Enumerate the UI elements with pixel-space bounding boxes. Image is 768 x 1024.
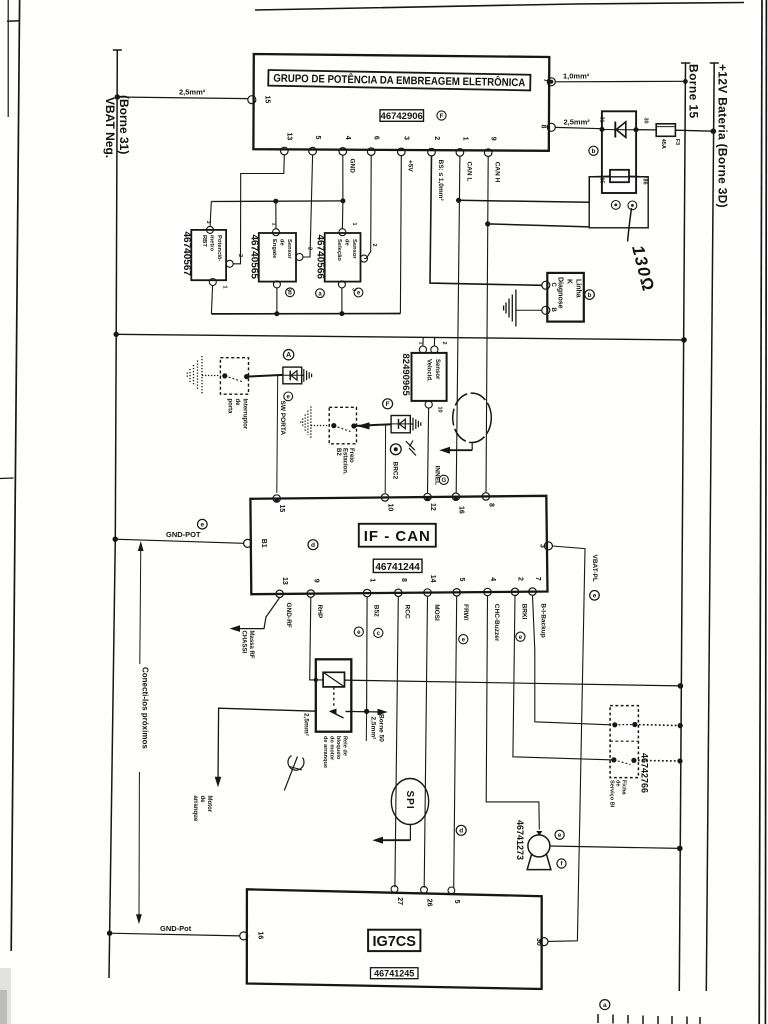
svg-text:GND-POT: GND-POT — [166, 530, 201, 539]
brake switch blade dashed — [334, 426, 351, 432]
buzzer base trapezoid — [527, 855, 551, 870]
wire coil pin86 via right edge to CAN H junction — [629, 175, 648, 178]
arrowhead on wire pointing left — [357, 422, 370, 429]
circled letter f near buzzer — [557, 859, 566, 868]
IG7CS right pin 30 — [540, 938, 548, 946]
arrowhead chassis left — [230, 625, 240, 632]
wire coil out to Borne15 long horizontal — [345, 680, 681, 686]
TOP_BOX_BOTTOM_PINS — [281, 147, 493, 156]
bottom tick marks — [598, 1014, 700, 1024]
sensor velocidade bottom pin 10 — [425, 401, 432, 408]
MAIN_VERTICALS — [109, 50, 719, 991]
SPI arrow left — [376, 839, 410, 841]
junction dot at VBAT — [113, 537, 118, 542]
svg-text:K: K — [566, 279, 573, 284]
svg-text:6: 6 — [373, 136, 380, 140]
svg-text:Sensor: Sensor — [351, 239, 357, 259]
sensor velocidade 82490965 box — [412, 353, 447, 401]
sensor velocidade top pin 1 — [419, 346, 426, 353]
svg-text:MOSI: MOSI — [433, 604, 440, 621]
switch blade dashed — [225, 376, 244, 382]
svg-text:b: b — [592, 148, 596, 155]
wire VBAT to pin15 2,5mm2 — [117, 97, 248, 99]
relay K2 coil diagonal — [323, 672, 344, 687]
wire RHP pin9 down to relay coil — [310, 598, 323, 680]
pin 15 circle left side — [248, 96, 256, 104]
svg-text:BS: ≤ 1,0mm²: BS: ≤ 1,0mm² — [437, 160, 444, 202]
svg-text:2: 2 — [433, 136, 440, 140]
wire VBAT-PL pin3 right and down to IG7CS pin30 — [548, 546, 585, 941]
sensor velocidade top pin 2 — [431, 346, 438, 353]
circled letter e below A — [284, 392, 293, 401]
svg-text:a: a — [603, 1002, 607, 1009]
wire relay output to Borne 50 (right, arrow) — [351, 711, 384, 714]
wire relay to starter motor (left, arrow down) — [218, 708, 316, 783]
lower bus rise to sensor engate bottom pin — [276, 288, 278, 314]
svg-text:C: C — [550, 283, 556, 288]
+12V top terminal tick — [710, 62, 719, 64]
svg-text:VBAT-PL: VBAT-PL — [591, 555, 598, 582]
svg-text:46741244: 46741244 — [375, 562, 420, 573]
relay K1 diode box — [602, 111, 636, 193]
junction dot at VBAT — [114, 332, 119, 337]
annotation double arrow line upper part — [140, 544, 141, 664]
IF-CAN left pin B1 — [244, 539, 252, 547]
svg-text:SW PORTA: SW PORTA — [279, 401, 286, 436]
bus drop to sensor selecao top pin — [341, 201, 344, 229]
sensor engate 46740565 box — [259, 233, 296, 282]
svg-text:e: e — [200, 522, 204, 529]
part number box 46741245 — [371, 968, 419, 979]
svg-text:2: 2 — [307, 247, 313, 250]
SPI stub down — [409, 825, 411, 841]
diode D1 triangle — [616, 122, 626, 138]
circled letter e near FRW — [459, 635, 468, 644]
bullseye mark — [390, 444, 401, 455]
junction dot B52 at relay output — [364, 709, 369, 714]
arrowhead Borne 50 — [378, 709, 388, 716]
svg-text:1: 1 — [222, 286, 228, 289]
sensor engate right pin — [296, 254, 303, 261]
relay K2 body box — [316, 659, 352, 731]
svg-text:G: G — [441, 478, 446, 484]
junction dot CAN H / relay86 wire — [485, 221, 490, 226]
svg-text:15: 15 — [264, 96, 271, 104]
svg-text:Conecti-los próximos: Conecti-los próximos — [141, 667, 150, 749]
relay K1 lower outline box — [589, 177, 648, 228]
svg-text:BRKI: BRKI — [520, 604, 527, 620]
wire pin9 CAN H down to IF-CAN pin8 — [486, 156, 488, 492]
dotted chassis ground left — [301, 406, 329, 439]
svg-text:BRC2: BRC2 — [391, 462, 398, 480]
circled letter d inside IF-CAN — [308, 540, 318, 550]
IG7CS top pin circles — [391, 886, 398, 893]
buzzer top terminal triangle — [536, 831, 542, 836]
svg-text:30: 30 — [535, 938, 542, 946]
svg-text:5: 5 — [314, 136, 321, 140]
junction dot at Borne15 — [678, 683, 684, 689]
right border outer line — [765, 0, 766, 1024]
ground symbol right of D2 — [302, 369, 312, 382]
diode D3 bar — [398, 419, 400, 429]
arrowhead down to starter motor — [215, 777, 222, 788]
relay K2 coil rect — [323, 672, 344, 687]
VBAT top terminal tick — [113, 49, 122, 51]
pin 5 circle — [309, 147, 317, 155]
wire B-I-Backup pin7 to service box top — [533, 596, 611, 725]
circled letter A — [283, 350, 293, 360]
svg-text:82490965: 82490965 — [400, 354, 411, 397]
wire BRKI pin2 to service box — [513, 596, 614, 760]
diode D1 cathode bar — [614, 122, 616, 138]
sensor selecao top pin — [339, 229, 346, 236]
svg-text:4: 4 — [344, 136, 351, 140]
lower bus rise to sensor selecao bottom pin — [341, 288, 343, 314]
wire MOSI pin14 down to IG7CS pin26 — [424, 597, 427, 888]
svg-text:b: b — [588, 292, 592, 299]
wire BRC2 branch down to IF-CAN pin10 — [384, 425, 386, 493]
svg-text:GND-Pot: GND-Pot — [160, 924, 192, 933]
brake switch contact dot right — [351, 423, 356, 428]
gray smudge bottom-left corner — [0, 968, 11, 1024]
thick wire doorswitch to diode D2 — [247, 375, 283, 377]
svg-text:RHP: RHP — [316, 605, 323, 619]
circled letter b right of box — [585, 290, 595, 300]
wire pin6 to sensor selecao right pin — [364, 155, 371, 258]
internal dashed divider — [610, 740, 638, 742]
svg-text:46742766: 46742766 — [640, 753, 650, 793]
diode D2 triangle — [291, 371, 297, 380]
svg-text:14: 14 — [429, 575, 436, 583]
wire B52 stub below relay output — [365, 711, 367, 741]
junction dot diode left pin 31 — [600, 127, 605, 132]
pin 1 circle — [456, 149, 464, 157]
stub from ellipse — [471, 443, 473, 451]
arrowhead down — [136, 914, 142, 924]
junction dot VBAT/pin15 wire — [115, 94, 120, 99]
circled letter d in relay — [611, 201, 620, 210]
circled letter a bottom right — [600, 1000, 610, 1010]
wire pin2 BS to Linha K pin C — [430, 156, 542, 285]
ground symbol right of D3 — [410, 418, 421, 431]
svg-text:arranque: arranque — [192, 796, 198, 822]
svg-text:de: de — [344, 239, 350, 247]
svg-text:+12V Bateria (Borne 3D): +12V Bateria (Borne 3D) — [716, 64, 730, 208]
junction dot at VBAT — [107, 931, 112, 936]
buzzer right wire to Borne15 — [550, 846, 680, 848]
wire GND-RF pin13 to chassis arrow — [232, 598, 279, 629]
svg-text:RCC: RCC — [404, 605, 411, 619]
svg-text:Borne 50: Borne 50 — [378, 714, 385, 742]
svg-text:2,5mm²: 2,5mm² — [564, 118, 591, 127]
brake switch contact dot left — [331, 423, 336, 428]
dotted wire to Borne15 bottom — [634, 759, 680, 762]
svg-text:Seleção: Seleção — [336, 239, 342, 261]
svg-text:8: 8 — [540, 125, 547, 129]
wire pin3 +5V down to lower bus — [399, 156, 402, 314]
left border tick — [7, 20, 20, 23]
svg-text:B-I-Backup: B-I-Backup — [540, 603, 547, 637]
IG7CS top pin labels — [396, 897, 460, 906]
relay switch blade — [330, 711, 343, 718]
IG7CS left pin 16 — [240, 932, 248, 940]
svg-text:4: 4 — [489, 577, 496, 581]
sensor selecao 46740566 box — [325, 233, 361, 282]
junction dot pin7 wire at Borne15 — [683, 79, 688, 84]
svg-text:46742906: 46742906 — [381, 111, 423, 122]
svg-text:1: 1 — [271, 223, 277, 226]
junction dot at +12V line — [711, 128, 717, 134]
stub pin2 to divider — [433, 338, 435, 347]
handdrawn bell mark — [288, 756, 304, 771]
svg-text:13: 13 — [281, 577, 288, 585]
svg-text:45A: 45A — [660, 139, 666, 149]
svg-text:do motor: do motor — [329, 736, 335, 761]
svg-text:2,5mm²: 2,5mm² — [179, 88, 206, 97]
svg-text:de arranque: de arranque — [322, 736, 328, 768]
arrowhead left — [439, 447, 450, 454]
svg-text:Motor: Motor — [206, 796, 212, 813]
IF-CAN top pin circles — [273, 493, 490, 503]
dotted wire to Borne15 top — [635, 725, 680, 726]
svg-text:de: de — [279, 239, 285, 247]
svg-text:16: 16 — [457, 506, 464, 514]
svg-text:1,0mm²: 1,0mm² — [563, 72, 590, 81]
dotted wire to brake switch — [311, 425, 329, 427]
bus drop to sensor engate top pin — [275, 201, 277, 228]
svg-text:CHC-Buzzer: CHC-Buzzer — [493, 604, 500, 642]
wire diode to fuse — [636, 129, 656, 131]
pin 6 circle — [367, 148, 375, 156]
svg-text:1: 1 — [351, 223, 357, 226]
twisted pair ellipse around CAN lines — [453, 393, 492, 442]
IG7CS title box — [368, 930, 420, 951]
diode D2 wire through — [283, 374, 302, 376]
net Borne 15 vertical line — [679, 63, 685, 991]
junction dot bus/pin4 corner — [340, 198, 345, 203]
wire ground to pin B — [516, 309, 542, 311]
svg-text:FRW/: FRW/ — [462, 604, 469, 621]
wire GND-POT B1 to VBAT — [115, 539, 244, 543]
wire GND-Pot VBAT to pin16 — [110, 933, 240, 936]
part number box 46741244 — [373, 559, 422, 572]
junction dot lower bus box3 — [339, 311, 344, 316]
diode D3 box — [391, 416, 410, 433]
svg-text:12: 12 — [429, 503, 436, 511]
svg-text:2,5mm²: 2,5mm² — [303, 713, 310, 737]
svg-text:IF - CAN: IF - CAN — [364, 528, 431, 545]
svg-text:1: 1 — [461, 137, 468, 141]
wire RCC pin8 down to IG7CS pin27 — [395, 597, 398, 887]
svg-text:7: 7 — [534, 577, 541, 581]
top contact dotted link — [615, 724, 635, 726]
svg-text:bloqueio: bloqueio — [335, 736, 341, 760]
svg-text:B1: B1 — [260, 539, 267, 548]
svg-text:SPI: SPI — [404, 791, 415, 810]
IF-CAN bottom pin circles — [276, 588, 536, 598]
svg-text:Interruptor: Interruptor — [242, 399, 248, 430]
handwritten annotation 130 ohm stroke — [628, 208, 632, 242]
wire pin5 to sensor engate right pin — [303, 155, 313, 257]
sensor engate top pin — [273, 229, 280, 236]
part number box 46742906 — [380, 110, 424, 122]
diode D2 bar — [289, 371, 291, 381]
junction dot at Borne15 — [681, 337, 687, 343]
diode D3 triangle — [399, 419, 405, 429]
wire pin1 CAN L down to IF-CAN pin16 — [456, 156, 460, 493]
svg-text:9: 9 — [490, 137, 497, 141]
svg-text:CAN H: CAN H — [494, 162, 501, 183]
circled letter F above D3 — [383, 399, 393, 409]
svg-text:26: 26 — [426, 899, 433, 907]
svg-text:85: 85 — [599, 178, 605, 184]
pin 3 circle — [398, 148, 406, 156]
svg-text:2: 2 — [371, 244, 377, 247]
svg-text:d: d — [311, 542, 315, 549]
svg-text:2: 2 — [517, 577, 524, 581]
svg-text:2,5mm²: 2,5mm² — [370, 717, 377, 741]
svg-text:46740566: 46740566 — [315, 235, 326, 280]
diode D1 wire through — [602, 129, 636, 131]
linha K pin B — [542, 306, 550, 314]
buzzer BZ1 circle — [528, 835, 550, 857]
junction dot CAN L / relay85 wire — [456, 198, 461, 203]
stub pin1 to divider — [422, 337, 424, 346]
svg-text:Sensor: Sensor — [286, 239, 292, 259]
circled letter F in top box — [437, 111, 446, 120]
wire down to IF-CAN pin15 — [276, 376, 279, 493]
svg-text:15: 15 — [278, 505, 285, 513]
arrow to CAN bus — [443, 449, 472, 451]
bottom contact dashed blade — [614, 760, 631, 765]
svg-text:B52: B52 — [372, 605, 379, 617]
wire coil pin85 to CAN L junction — [459, 176, 610, 202]
svg-text:B2: B2 — [335, 448, 341, 456]
wire fuse to +12V line — [675, 130, 713, 131]
svg-text:Potenciô-: Potenciô- — [216, 235, 222, 261]
pin 13 circle — [281, 147, 289, 155]
junction dot Borne15 top — [678, 723, 683, 728]
svg-text:46741245: 46741245 — [374, 969, 414, 979]
svg-text:Linha: Linha — [575, 279, 582, 298]
switch contact dot left — [222, 373, 227, 378]
thick wire brake switch to diode D3 with arrow — [354, 424, 391, 426]
title box GRUPO DE POTENCIA DA EMBREAGEM ELETRONICA — [268, 70, 530, 90]
svg-text:metro: metro — [209, 235, 215, 252]
svg-text:3: 3 — [539, 544, 546, 548]
svg-text:Engate: Engate — [271, 239, 277, 259]
svg-text:8: 8 — [400, 578, 407, 582]
linha K pin C — [542, 281, 550, 289]
svg-text:8: 8 — [487, 503, 494, 507]
pin 8 circle and wire 2,5mm2 to diode relay — [547, 123, 555, 131]
lower bus sensor bottoms — [211, 313, 400, 315]
upper bus to sensor tops — [211, 200, 343, 203]
circled letter a under gap — [316, 289, 325, 298]
svg-text:VBAT Neg.: VBAT Neg. — [103, 97, 117, 158]
svg-text:B: B — [550, 308, 556, 313]
pin 2 circle — [428, 148, 436, 156]
left border line A — [7, 0, 9, 117]
svg-text:Sensor: Sensor — [434, 359, 440, 380]
svg-text:46741273: 46741273 — [515, 820, 525, 860]
left border line B — [11, 0, 19, 951]
circled letter e under sensor selecao — [354, 288, 363, 297]
svg-text:porta: porta — [227, 399, 233, 415]
door switch dashed box Interruptor de porta — [220, 358, 248, 395]
fuse inner line — [657, 126, 675, 128]
top contact dots — [612, 722, 617, 727]
wire pin4 GND down to upper bus — [342, 155, 344, 201]
svg-text:+5V: +5V — [407, 160, 414, 172]
arrowhead up — [138, 541, 144, 551]
arrowhead SPI — [372, 837, 383, 844]
junction dot bus/sensor2 — [273, 199, 278, 204]
linha K diagnose box — [547, 273, 584, 322]
svg-text:CAN L: CAN L — [465, 162, 472, 182]
svg-text:10: 10 — [437, 407, 443, 413]
svg-text:7: 7 — [542, 79, 549, 83]
svg-text:A: A — [286, 352, 291, 359]
svg-text:Serviço Bl: Serviço Bl — [609, 780, 615, 808]
relay switch right contact stub — [346, 711, 352, 713]
diode D2 box — [283, 367, 302, 384]
IF-CAN right pin 3 — [544, 542, 552, 550]
svg-text:Rele de: Rele de — [342, 736, 348, 756]
circled letter d right of SPI — [456, 825, 466, 835]
IF-CAN top pin labels — [278, 503, 494, 514]
circled letter e in relay — [628, 201, 637, 210]
svg-text:b: b — [288, 291, 292, 297]
circled letter c near pin12 wire — [439, 475, 448, 484]
potentiometer top pin — [207, 226, 214, 233]
handwritten x mark — [406, 441, 416, 456]
ECU U2 IF-CAN outline — [250, 496, 547, 594]
svg-text:F3: F3 — [674, 139, 680, 145]
annotation double arrow line lower part — [138, 772, 140, 921]
svg-text:10: 10 — [387, 504, 394, 512]
circled letter e near BRKI — [516, 632, 525, 641]
pin 7 circle and wire 1,0mm2 to Borne15 — [547, 78, 555, 86]
svg-text:d: d — [459, 828, 463, 835]
potentiometer bottom pin — [209, 279, 216, 286]
fuse F3 45A body — [656, 124, 675, 137]
bottom contact dots — [611, 757, 616, 762]
ECU U3 IG7CS outline — [247, 889, 542, 989]
svg-text:2: 2 — [441, 342, 447, 345]
ground symbol for pin B — [504, 290, 516, 327]
svg-text:Freio: Freio — [348, 448, 354, 463]
svg-text:Borne 15: Borne 15 — [687, 64, 701, 119]
junction dot buzzer wire Borne15 — [677, 846, 683, 852]
svg-text:(Borne 31): (Borne 31) — [117, 95, 131, 154]
svg-text:CHASSI: CHASSI — [241, 631, 247, 654]
svg-text:Estacion.: Estacion. — [342, 448, 348, 475]
circled letter b left of relay — [589, 146, 598, 155]
svg-text:2: 2 — [237, 254, 243, 257]
wire FRW pin5 down to IG7CS pin5 — [454, 596, 457, 888]
svg-text:IG7CS: IG7CS — [372, 934, 416, 950]
svg-text:F: F — [386, 401, 390, 408]
potentiometer R1 46740567 box — [191, 230, 226, 280]
bus drop to potentiometer top pin — [210, 202, 211, 227]
circled letter c near RCC — [374, 628, 383, 637]
IF-CAN title box — [359, 524, 436, 547]
handdrawn bell diagonal stroke — [284, 757, 297, 791]
IF-CAN bottom pin labels — [281, 575, 541, 585]
svg-text:F: F — [440, 113, 444, 120]
relay switch left contact arrow — [329, 709, 337, 714]
